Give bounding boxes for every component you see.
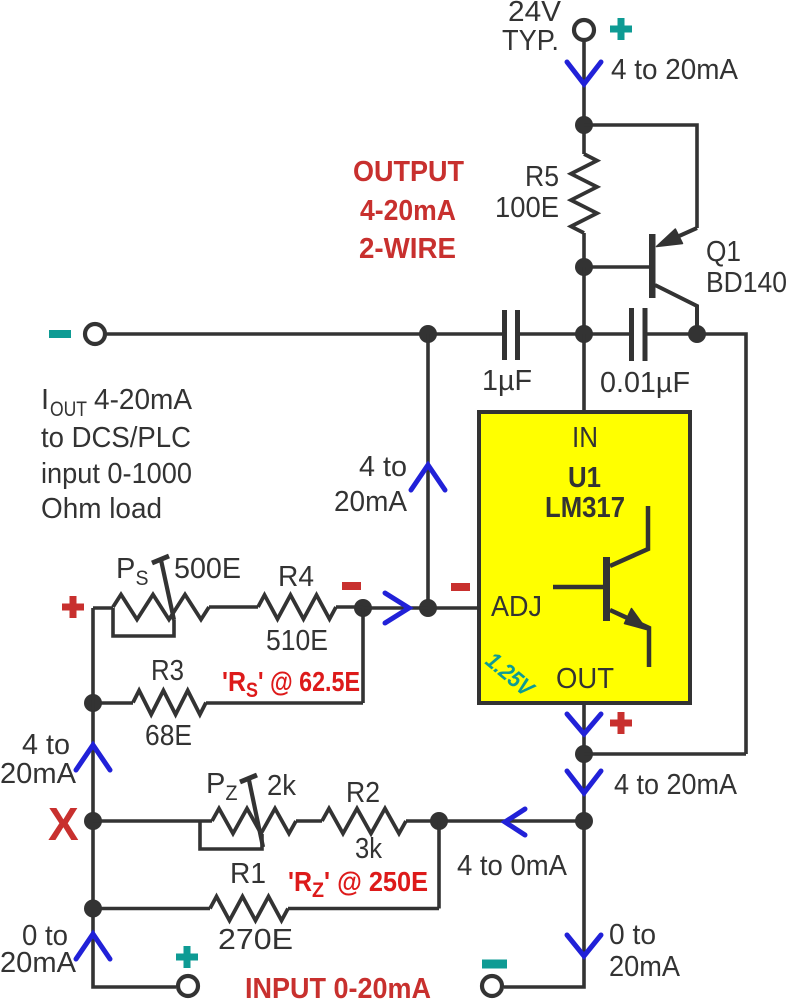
current arrow down (OUT pin)	[567, 714, 601, 734]
24V supply terminal	[574, 20, 594, 40]
svg-text:to DCS/PLC: to DCS/PLC	[41, 422, 191, 454]
node: collector junction	[688, 325, 706, 343]
node: X junction	[84, 812, 102, 830]
node: R5 bottom junction	[575, 258, 593, 276]
terminal: output negative	[85, 324, 105, 344]
wire: R3 row	[93, 701, 363, 705]
svg-text:20mA: 20mA	[609, 951, 681, 983]
svg-text:4 to 0mA: 4 to 0mA	[457, 850, 568, 882]
polarity plus (24V)	[610, 18, 632, 40]
wire: left rail vertical	[93, 608, 176, 987]
current arrow down (right rail)	[567, 771, 601, 793]
polarity minus red (before arrow)	[342, 582, 361, 590]
resistor R4 510E	[258, 595, 336, 619]
svg-text:4 to: 4 to	[359, 451, 407, 483]
node: R1 left junction	[84, 900, 102, 918]
potentiometer PS 500E	[113, 556, 209, 636]
svg-text:Z: Z	[226, 782, 238, 805]
svg-text:P: P	[206, 768, 225, 800]
resistor R3 68E	[133, 691, 206, 715]
potentiometer PZ 2k	[200, 775, 296, 849]
svg-text:0.01µF: 0.01µF	[600, 367, 690, 399]
svg-text:LM317: LM317	[545, 492, 625, 524]
wire: R4 to junction	[336, 607, 428, 608]
resistor R1 270E	[210, 897, 288, 921]
wire: R5 to base node	[582, 233, 586, 267]
terminal: input minus	[482, 976, 502, 996]
node: R4 output junction	[354, 599, 372, 617]
svg-text:TYP.: TYP.	[502, 25, 559, 57]
svg-text:20mA: 20mA	[334, 486, 408, 518]
polarity minus (input)	[482, 960, 507, 969]
wire: left rail to 1uF	[107, 332, 504, 336]
current arrow up (left rail upper)	[76, 745, 110, 770]
capacitor C1 1uF	[505, 310, 518, 360]
wire: PZ to R2	[296, 819, 322, 823]
wire: OUT node to right rail	[584, 752, 746, 756]
svg-text:R5: R5	[525, 161, 559, 193]
node: ADJ junction	[419, 599, 437, 617]
wire: junction to Q1 emitter	[584, 125, 697, 228]
svg-text:'R: 'R	[222, 666, 246, 697]
svg-text:X: X	[48, 798, 79, 850]
svg-text:20mA: 20mA	[0, 758, 77, 790]
wire: IN node to U1	[582, 334, 586, 412]
svg-text:24V: 24V	[508, 0, 562, 28]
wire: X to PZ	[93, 819, 212, 823]
wire: terminal to R5	[582, 42, 586, 154]
wire: R1 row	[93, 907, 439, 911]
resistor R2 3k	[322, 809, 406, 834]
svg-text:R4: R4	[278, 561, 314, 593]
svg-text:input 0-1000: input 0-1000	[41, 458, 192, 490]
svg-text:U1: U1	[568, 462, 601, 494]
svg-text:68E: 68E	[145, 720, 192, 752]
current arrow down (top)	[567, 62, 601, 84]
svg-text:IN: IN	[572, 422, 598, 454]
svg-text:OUTPUT: OUTPUT	[353, 156, 464, 188]
svg-text:270E: 270E	[218, 924, 293, 956]
svg-text:4-20mA: 4-20mA	[94, 384, 193, 416]
wire: plus input corner	[93, 606, 113, 610]
wire: 0.01uF to collector node and right rail	[645, 334, 746, 754]
svg-text:510E: 510E	[266, 625, 328, 657]
svg-text:20mA: 20mA	[0, 947, 77, 979]
transistor Q1	[649, 228, 697, 334]
polarity plus red (ADJ chain)	[62, 596, 84, 618]
resistor R5	[571, 154, 597, 233]
capacitor C2 0.01uF	[632, 308, 646, 361]
svg-text:INPUT 0-20mA: INPUT 0-20mA	[245, 973, 431, 1000]
node: R3 left junction	[84, 694, 102, 712]
wire: ADJ pin	[428, 606, 479, 610]
svg-text:R2: R2	[346, 777, 380, 809]
svg-text:4-20mA: 4-20mA	[360, 195, 456, 227]
polarity minus red (at ADJ)	[451, 583, 470, 591]
svg-text:1µF: 1µF	[482, 365, 532, 397]
wire: base of Q1	[584, 265, 649, 269]
current arrow left (feedback)	[505, 809, 525, 835]
svg-text:OUT: OUT	[556, 663, 614, 695]
terminal: input plus	[178, 976, 198, 996]
current arrow up (left rail lower)	[76, 934, 110, 959]
node: OUT junction	[575, 745, 593, 763]
svg-text:OUT: OUT	[50, 398, 87, 421]
wire: 1uF to IN node	[517, 332, 631, 336]
svg-text:Q1: Q1	[706, 236, 741, 268]
svg-text:'R: 'R	[288, 866, 312, 897]
svg-text:2k: 2k	[267, 770, 296, 802]
svg-text:Z: Z	[312, 879, 324, 902]
polarity plus red (OUT)	[610, 712, 632, 734]
svg-text:R1: R1	[230, 858, 266, 890]
svg-text:S: S	[136, 567, 149, 590]
wire: PS to R4	[209, 605, 258, 609]
polarity minus (output)	[49, 330, 71, 338]
wire: base node down to cap rail	[582, 267, 586, 334]
svg-text:100E: 100E	[495, 192, 559, 224]
node: top junction	[575, 116, 593, 134]
svg-text:R3: R3	[151, 655, 184, 687]
svg-text:500E: 500E	[174, 553, 241, 585]
node: feedback junction	[575, 812, 593, 830]
polarity plus (input)	[176, 946, 198, 968]
wire: R2 to right rail	[406, 819, 584, 823]
wire: middle vertical to ADJ level	[426, 334, 430, 608]
svg-text:I: I	[41, 384, 49, 416]
current arrow right (to ADJ)	[385, 593, 409, 623]
svg-text:P: P	[116, 553, 135, 585]
wire: junction down to R3	[361, 608, 365, 703]
svg-text:ADJ: ADJ	[491, 591, 542, 623]
svg-text:4 to: 4 to	[22, 729, 70, 761]
svg-text:3k: 3k	[355, 833, 382, 865]
svg-text:' @ 250E: ' @ 250E	[324, 866, 428, 897]
wire: junction down to R1	[437, 821, 441, 909]
svg-text:4 to 20mA: 4 to 20mA	[614, 769, 738, 801]
svg-text:' @ 62.5E: ' @ 62.5E	[258, 666, 360, 697]
current arrow down (right rail bottom)	[567, 935, 601, 956]
node: R2 right junction	[430, 812, 448, 830]
wire: OUT pin down	[504, 703, 584, 987]
svg-text:0 to: 0 to	[609, 919, 656, 951]
svg-text:BD140: BD140	[706, 267, 787, 299]
op-amp U1 LM317 regulator box	[479, 412, 690, 703]
transistor symbol inside U1	[553, 506, 649, 667]
node: IN pin junction	[575, 325, 593, 343]
svg-text:S: S	[246, 679, 258, 702]
svg-text:4 to 20mA: 4 to 20mA	[611, 54, 739, 86]
svg-text:Ohm load: Ohm load	[41, 493, 162, 525]
current arrow up (middle vertical)	[411, 465, 445, 490]
node: rail/vertical junction	[419, 325, 437, 343]
svg-text:2-WIRE: 2-WIRE	[359, 233, 456, 265]
